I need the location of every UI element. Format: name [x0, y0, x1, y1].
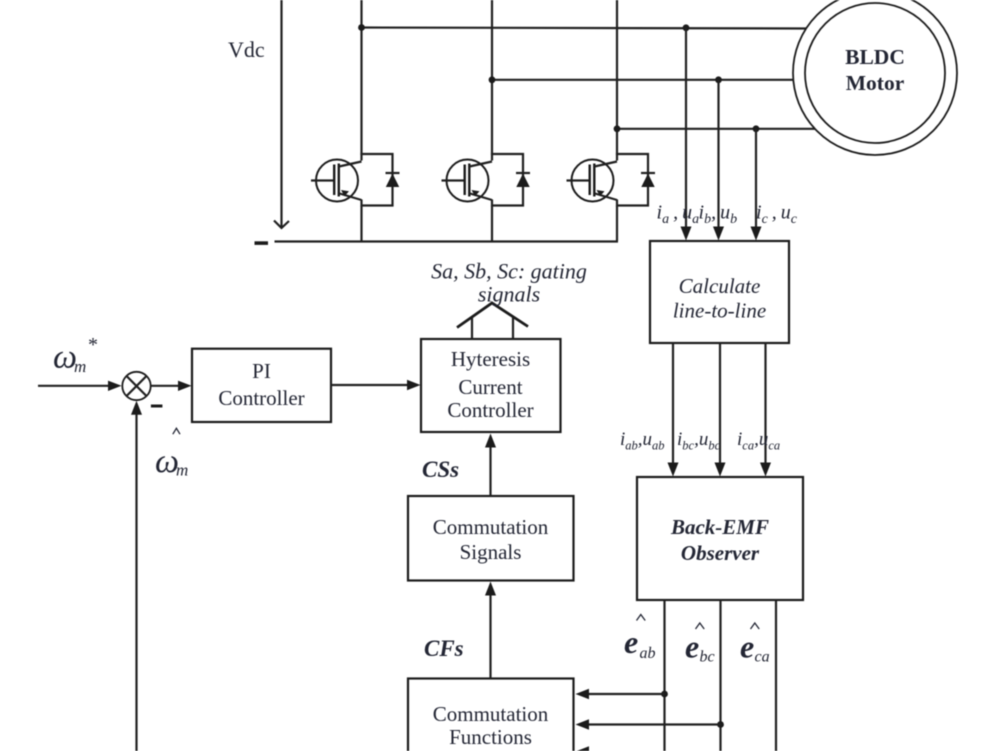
wire: speed setpoint input arrow	[38, 381, 122, 391]
wire: phase B leg vertical (top)	[491, 0, 493, 155]
block: Commutation Functions	[408, 679, 574, 751]
wire: e_ab output line down	[663, 600, 665, 751]
block: PI Controller	[192, 349, 331, 422]
node: junction e_ab feedback	[661, 691, 668, 698]
wire: CFs arrow from Commutation Functions up to Commutation Signals	[485, 582, 496, 679]
svg-text:line-to-line: line-to-line	[673, 299, 766, 323]
svg-text:ica,uca: ica,uca	[737, 429, 780, 453]
transistor Q3 (IGBT, phase C)	[567, 160, 618, 202]
wire: ibc,ubc line to Back-EMF observer	[715, 343, 726, 477]
svg-text:ic , uc: ic , uc	[756, 202, 798, 228]
label minus terminal	[255, 241, 269, 245]
svg-text:Observer: Observer	[681, 541, 760, 565]
svg-text:ia , ua: ia , ua	[657, 202, 700, 228]
svg-text:m: m	[176, 461, 188, 480]
node: junction e_bc feedback	[717, 721, 724, 728]
wire: bottom DC rail	[275, 240, 619, 242]
label estimated omega_m with hat	[155, 428, 188, 480]
svg-text:Functions: Functions	[449, 725, 532, 749]
diode D1 (freewheel, phase A)	[362, 154, 400, 206]
svg-text:m: m	[74, 357, 86, 376]
svg-text:Motor: Motor	[846, 71, 905, 95]
svg-text:e: e	[685, 629, 699, 665]
svg-text:signals: signals	[478, 282, 540, 307]
svg-text:Back-EMF: Back-EMF	[670, 515, 769, 539]
transistor Q1 (IGBT, phase A)	[311, 160, 362, 202]
svg-text:Calculate: Calculate	[679, 274, 761, 298]
svg-text:PI: PI	[252, 359, 271, 383]
wire: e_ab feedback arrow into Commutation Functions	[576, 689, 665, 699]
label minus sign at summing junction	[151, 405, 163, 408]
node: junction leg C / bus C	[614, 125, 621, 132]
wire: e_bc output line down	[719, 600, 721, 751]
block: Hyteresis Current Controller	[421, 339, 561, 432]
svg-text:Commutation: Commutation	[433, 515, 549, 539]
svg-text:bc: bc	[700, 649, 715, 666]
wire: e_ca output line down	[775, 600, 777, 751]
svg-text:e: e	[740, 629, 754, 665]
node: junction leg B / bus B	[489, 76, 496, 83]
wire: phase B leg vertical (bottom)	[491, 206, 493, 242]
svg-text:Controller: Controller	[218, 386, 304, 410]
label e_bc with hat	[685, 623, 715, 666]
wire: sense line ic,uc down to Calculate box	[751, 129, 762, 241]
wire: Vdc bus vertical with down arrow	[274, 0, 289, 228]
block: Back-EMF Observer	[637, 477, 803, 600]
svg-text:Controller: Controller	[447, 398, 533, 422]
motor M1: BLDC motor	[793, 0, 957, 155]
wire: e_ca feedback arrowhead (clipped at bottom edge)	[576, 746, 590, 751]
svg-text:Current: Current	[458, 375, 522, 399]
svg-text:ib, ub: ib, ub	[699, 202, 738, 228]
label e_ca with hat	[740, 623, 770, 666]
svg-text:Signals: Signals	[460, 540, 522, 564]
gating signals bus arrow (chevron above Hyteresis box)	[457, 303, 528, 339]
block: Commutation Signals	[408, 496, 574, 581]
wire: iab,uab line to Back-EMF observer	[668, 343, 679, 477]
wire: phase A leg vertical (top)	[360, 0, 362, 155]
node: junction leg A / bus A	[358, 24, 365, 31]
wire: phase C leg vertical (top)	[616, 0, 618, 155]
svg-text:ab: ab	[640, 645, 656, 662]
wire: phase A bus to motor	[362, 28, 808, 29]
svg-text:Hyteresis: Hyteresis	[451, 347, 530, 371]
wire: CSs arrow from Commutation Signals up to Hyteresis controller	[485, 434, 496, 497]
wire: phase B bus to motor	[492, 79, 793, 81]
svg-text:BLDC: BLDC	[845, 45, 905, 69]
wire: ica,uca line to Back-EMF observer	[760, 343, 771, 477]
wire: phase C leg vertical (bottom)	[616, 206, 618, 242]
summing junction S1	[122, 372, 150, 400]
svg-text:ibc,ubc: ibc,ubc	[677, 429, 721, 453]
diode D2 (freewheel, phase B)	[492, 154, 530, 206]
diode D3 (freewheel, phase C)	[617, 154, 655, 206]
node: junction bus B / sense b	[715, 76, 722, 83]
block: Calculate line-to-line	[650, 241, 789, 343]
wire: phase C bus to motor	[617, 128, 815, 130]
label e_ab with hat	[624, 615, 656, 663]
wire: PI controller to Hyteresis controller	[331, 380, 421, 390]
wire: e_bc feedback arrow into Commutation Functions	[576, 719, 721, 729]
wire: estimated speed feedback vertical with up arrow	[131, 401, 142, 751]
svg-text:CFs: CFs	[424, 636, 464, 661]
wire: sense line ib,ub down to Calculate box	[713, 80, 724, 241]
wire: summing junction to PI controller	[151, 381, 191, 391]
node: junction bus C / sense c	[753, 125, 760, 132]
label omega_m* setpoint	[53, 334, 98, 376]
svg-text:CSs: CSs	[422, 457, 459, 482]
svg-text:Sa, Sb, Sc: gating: Sa, Sb, Sc: gating	[431, 259, 587, 284]
svg-text:Vdc: Vdc	[228, 37, 265, 62]
wire: phase A leg vertical (bottom)	[360, 206, 362, 242]
wire: sense line ia,ua down to Calculate box	[681, 28, 692, 241]
node: junction bus A / sense a	[683, 24, 690, 31]
svg-text:*: *	[88, 334, 98, 356]
svg-text:Commutation: Commutation	[433, 702, 549, 726]
svg-text:ca: ca	[755, 649, 770, 666]
transistor Q2 (IGBT, phase B)	[442, 160, 493, 202]
svg-text:e: e	[624, 624, 638, 660]
svg-text:iab,uab: iab,uab	[620, 429, 665, 453]
